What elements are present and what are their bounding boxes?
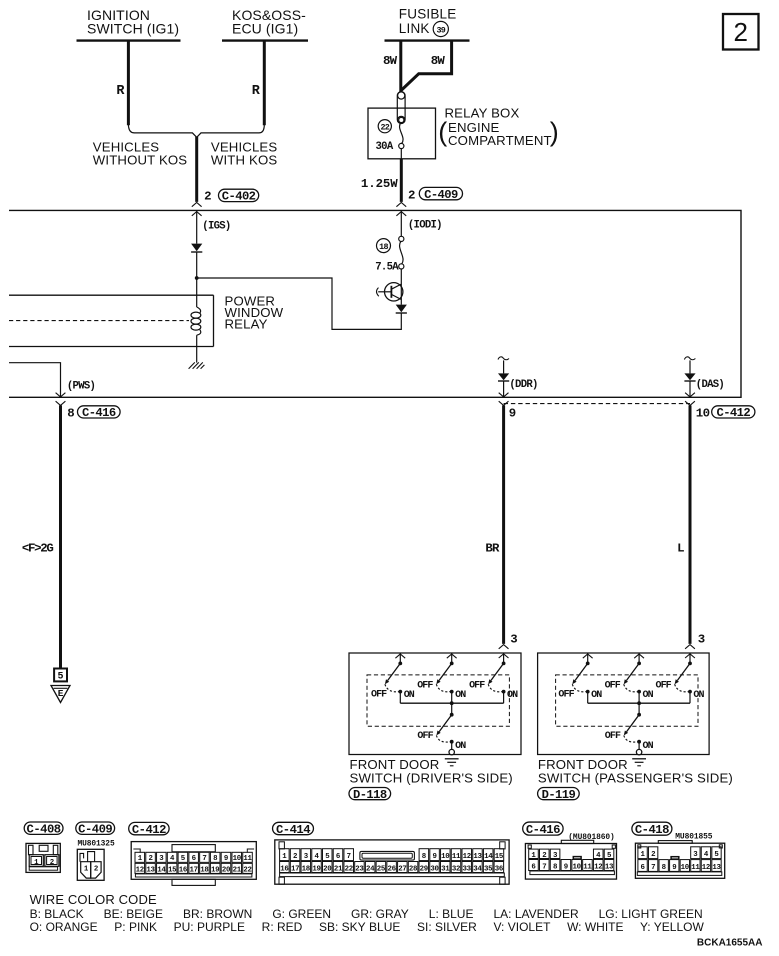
wire ON contact to bus main contact (689, 692, 691, 704)
switch stub main contact (689, 654, 691, 664)
ON contact window-lock contact (398, 690, 402, 694)
svg-text:5: 5 (57, 672, 63, 683)
svg-text:C-409: C-409 (424, 188, 458, 202)
wire 8W left drop (399, 41, 402, 92)
svg-text:19: 19 (211, 866, 219, 874)
switch stub window-lock contact (395, 653, 405, 663)
wire R from ignition switch (127, 41, 130, 126)
svg-text:16: 16 (179, 866, 188, 874)
wire branch to transistor (197, 278, 402, 329)
svg-text:OFF: OFF (655, 680, 671, 691)
svg-text:25: 25 (377, 866, 386, 874)
wire to connector C-402 (195, 137, 198, 202)
svg-text:23: 23 (355, 866, 364, 874)
svg-text:): ) (550, 117, 559, 147)
svg-text:14: 14 (157, 866, 166, 874)
svg-text:ON: ON (591, 690, 602, 701)
wire ON contact to bus center contact (638, 692, 640, 704)
relay box label RELAY BOX (ENGINE COMPARTMENT) (438, 105, 559, 148)
svg-text:7: 7 (202, 855, 206, 863)
svg-text:8W: 8W (383, 54, 398, 68)
ignition switch (IG1) header (77, 7, 181, 41)
switch blade center contact (436, 663, 451, 684)
connector C-416 bubble (pin 8) (78, 406, 121, 420)
svg-text:C-414: C-414 (276, 823, 310, 837)
svg-text:C-408: C-408 (27, 823, 61, 837)
svg-text:(IODI): (IODI) (408, 219, 442, 231)
connector D-118 bubble (349, 788, 391, 802)
svg-text:(PWS): (PWS) (67, 380, 95, 392)
page number box 2 (723, 14, 759, 50)
svg-text:7: 7 (347, 853, 351, 861)
connector C-416 drawing (525, 840, 616, 879)
connector C-409 bubble label (76, 822, 115, 837)
pivot node door contact (450, 713, 454, 717)
svg-text:RELAY: RELAY (225, 316, 268, 331)
switch stub window-lock contact (583, 653, 593, 663)
svg-text:<F>2G: <F>2G (22, 542, 54, 556)
svg-text:8: 8 (67, 407, 74, 421)
wire ON contact to bus window-lock contact (587, 692, 589, 704)
switch blade door contact (436, 715, 451, 736)
svg-text:32: 32 (452, 866, 460, 874)
entry crossing arrows (pin 3) (685, 645, 695, 658)
svg-text:C-412: C-412 (132, 823, 166, 837)
svg-text:9: 9 (509, 407, 516, 421)
pivot node center contact (450, 662, 454, 666)
svg-text:WITH KOS: WITH KOS (211, 153, 277, 168)
dashed pair link below ECU (504, 403, 690, 405)
svg-text:2: 2 (733, 17, 747, 47)
svg-text:9: 9 (672, 864, 676, 872)
switch blade center contact (624, 663, 639, 684)
ON contact door switch (637, 740, 641, 744)
svg-text:OFF: OFF (558, 690, 574, 701)
svg-text:9: 9 (564, 864, 568, 872)
svg-text:(DAS): (DAS) (696, 379, 724, 391)
dashed lock-group outline (556, 675, 698, 726)
svg-text:WIRE COLOR CODE: WIRE COLOR CODE (30, 892, 157, 907)
connector D-119 bubble (538, 788, 580, 802)
wire 8W right drop (401, 41, 452, 91)
svg-text:14: 14 (484, 853, 493, 861)
internal ground hatch (189, 362, 205, 368)
svg-text:36: 36 (495, 866, 504, 874)
ground terminal box 5 (54, 669, 67, 683)
ground wire 2G (59, 405, 62, 668)
svg-text:11: 11 (452, 853, 461, 861)
common bus wire (588, 702, 690, 704)
dashed throw arc window-lock contact (572, 684, 586, 692)
svg-text:17: 17 (190, 866, 198, 874)
wire (IODI) inside ECU (400, 210, 402, 236)
wire color code legend (30, 892, 705, 934)
common bus wire (400, 702, 503, 704)
ON contact main contact (502, 690, 506, 694)
svg-text:C-416: C-416 (526, 823, 560, 837)
node junction on IGS line (195, 276, 199, 280)
wire R from KOS&OSS-ECU (263, 41, 266, 126)
ON contact main contact (688, 690, 692, 694)
svg-text:18: 18 (200, 866, 209, 874)
ETACS-ECU box outline (9, 210, 741, 397)
ON contact door switch (450, 740, 454, 744)
switch blade main contact (488, 663, 503, 684)
svg-text:C-418: C-418 (635, 823, 669, 837)
svg-text:10: 10 (233, 855, 242, 863)
svg-text:9: 9 (433, 853, 437, 861)
chassis ground symbol (632, 759, 646, 766)
connector C-414 bubble label (273, 822, 314, 837)
diode on (DAS) line (684, 373, 695, 381)
svg-text:2: 2 (94, 866, 98, 874)
svg-text:13: 13 (146, 866, 155, 874)
svg-text:OFF: OFF (371, 690, 387, 701)
svg-text:OFF: OFF (605, 680, 621, 691)
svg-text:26: 26 (387, 866, 396, 874)
svg-text:ON: ON (455, 690, 466, 701)
svg-text:11: 11 (243, 855, 252, 863)
svg-text:OFF: OFF (469, 680, 485, 691)
svg-text:O: ORANGE P: PINK PU:: O: ORANGE P: PINK PU: PURPLE R: RED SB: … (30, 920, 705, 934)
svg-text:(IGS): (IGS) (202, 220, 230, 232)
svg-text:2: 2 (542, 852, 546, 860)
svg-text:C-412: C-412 (717, 406, 751, 420)
svg-text:2: 2 (204, 189, 211, 203)
svg-text:11: 11 (691, 864, 700, 872)
svg-text:SWITCH (DRIVER'S SIDE): SWITCH (DRIVER'S SIDE) (350, 770, 513, 785)
svg-text:1.25W: 1.25W (361, 177, 398, 191)
svg-text:C-416: C-416 (82, 406, 116, 420)
svg-text:19: 19 (312, 866, 320, 874)
fuse 22 element (399, 117, 404, 148)
svg-text:C-409: C-409 (78, 823, 112, 837)
wire ON contact to bus window-lock contact (399, 692, 401, 704)
svg-text:2: 2 (293, 853, 297, 861)
svg-text:15: 15 (168, 866, 177, 874)
wire (IGS) inside ECU (196, 210, 198, 243)
svg-text:2: 2 (50, 859, 54, 867)
continuation curl (DAS) (684, 357, 695, 360)
switch stub main contact (503, 654, 505, 664)
svg-text:ON: ON (455, 741, 466, 752)
svg-text:7: 7 (651, 864, 655, 872)
svg-text:22: 22 (380, 122, 389, 132)
fusible link element symbol (397, 92, 405, 124)
connector C-408 bubble label (24, 822, 63, 837)
fusible link supply bar (385, 39, 470, 41)
svg-text:ECU (IG1): ECU (IG1) (232, 21, 298, 37)
diode on IGS line (191, 244, 202, 252)
svg-text:39: 39 (436, 25, 445, 35)
svg-text:15: 15 (495, 853, 504, 861)
svg-text:WITHOUT KOS: WITHOUT KOS (93, 153, 188, 168)
pivot node main contact (688, 662, 692, 666)
svg-text:35: 35 (484, 866, 493, 874)
svg-text:2: 2 (408, 189, 415, 203)
svg-text:(: ( (438, 117, 447, 147)
wire coil to internal ground (196, 335, 198, 362)
wire L to passenger door switch (689, 405, 692, 644)
wire to ground terminal (451, 742, 453, 750)
svg-text:31: 31 (441, 866, 450, 874)
svg-text:L: L (677, 541, 684, 555)
wire bus to door switch (638, 703, 640, 715)
circled 18 (fuse number) (377, 239, 391, 253)
svg-text:17: 17 (291, 866, 299, 874)
svg-text:7.5A: 7.5A (375, 262, 399, 274)
svg-text:RELAY BOX: RELAY BOX (445, 105, 520, 120)
svg-text:12: 12 (702, 864, 710, 872)
switch blade window-lock contact (385, 663, 400, 684)
svg-text:12: 12 (463, 853, 471, 861)
svg-text:10: 10 (696, 407, 710, 421)
svg-text:13: 13 (473, 853, 482, 861)
svg-text:8W: 8W (431, 54, 446, 68)
wire (DDR) to diode (503, 360, 505, 373)
svg-text:3: 3 (510, 633, 517, 647)
wire (PWS) inside ECU (9, 363, 61, 398)
ON contact center contact (450, 690, 454, 694)
dashed throw arc main contact (675, 684, 689, 692)
svg-text:12: 12 (594, 864, 602, 872)
connector C-418 bubble label (632, 822, 672, 837)
svg-text:3: 3 (698, 633, 705, 647)
svg-text:OFF: OFF (417, 731, 433, 742)
svg-text:30A: 30A (376, 141, 394, 153)
dashed throw arc main contact (488, 684, 502, 692)
wire to ground terminal (638, 742, 640, 750)
svg-text:11: 11 (583, 864, 592, 872)
svg-text:D-118: D-118 (353, 788, 387, 802)
svg-text:R: R (116, 84, 125, 99)
switch stub center contact (634, 653, 644, 663)
connector C-402 bubble (219, 189, 259, 204)
wire BR to driver door switch (502, 405, 505, 644)
connector C-414 drawing (275, 840, 509, 884)
pivot node door contact (637, 713, 641, 717)
connector C-409 bubble (419, 187, 462, 202)
KOS&OSS-ECU (IG1) header (222, 7, 308, 41)
svg-text:7: 7 (542, 864, 546, 872)
svg-text:SWITCH (IG1): SWITCH (IG1) (87, 21, 179, 37)
dashed lock-group outline (367, 675, 509, 726)
svg-text:ON: ON (643, 741, 654, 752)
svg-text:ON: ON (404, 690, 415, 701)
label FRONT DOOR SWITCH (DRIVER'S SIDE) (350, 757, 513, 785)
connector C-409 crossing arrows (396, 203, 406, 216)
switch stub center contact (447, 653, 457, 663)
wire ON contact to bus main contact (503, 692, 505, 704)
label FRONT DOOR SWITCH (PASSENGER'S SIDE) (538, 757, 733, 785)
door switch box outline (538, 653, 710, 755)
wire from diode to relay coil (196, 252, 198, 307)
earth point E symbol (51, 686, 70, 703)
connector C-412 bubble (pin 10) (712, 406, 755, 420)
wire diode to ECU edge (DAS) (689, 381, 691, 397)
connector C-408 drawing (26, 843, 60, 872)
svg-text:20: 20 (222, 866, 231, 874)
dashed throw arc door contact (436, 735, 450, 742)
svg-text:2: 2 (148, 855, 152, 863)
switch blade window-lock contact (572, 663, 587, 684)
fusible link header with circled 39 (399, 6, 457, 36)
wire (DAS) to diode (689, 360, 691, 373)
connector C-416 bubble label (523, 822, 563, 837)
entry crossing arrows (pin 3) (499, 645, 509, 658)
svg-text:D-119: D-119 (542, 788, 576, 802)
svg-text:34: 34 (473, 866, 482, 874)
label POWER WINDOW RELAY (225, 293, 284, 331)
svg-text:MU801325: MU801325 (78, 839, 115, 848)
svg-text:B: BLACK BE: BEIGE B: B: BLACK BE: BEIGE BR: BROWN G: GREEN GR… (30, 907, 703, 921)
connector C-412 bubble label (129, 822, 169, 837)
svg-text:E: E (58, 688, 64, 699)
svg-text:COMPARTMENT: COMPARTMENT (448, 133, 552, 148)
transistor Q (IOD driver) (377, 283, 403, 301)
fuse 18 element 7.5A (399, 236, 404, 269)
bus junction node (450, 701, 454, 705)
svg-text:MU801855: MU801855 (675, 832, 712, 841)
switch blade door contact (624, 715, 639, 736)
svg-text:12: 12 (136, 866, 144, 874)
ground terminal circle (449, 749, 454, 754)
svg-text:18: 18 (379, 242, 388, 252)
wire from fuse 22 to box edge (400, 149, 402, 159)
svg-text:OFF: OFF (417, 680, 433, 691)
connector C-418 drawing (635, 841, 724, 879)
svg-text:ON: ON (643, 690, 654, 701)
connector crossing arrows (DDR) (499, 393, 509, 406)
connector C-416 crossing arrows (56, 393, 66, 406)
wire fuse 18 to transistor (400, 269, 402, 305)
svg-text:10: 10 (681, 864, 690, 872)
svg-text:30: 30 (430, 866, 439, 874)
circled 22 (fuse number) (378, 120, 391, 133)
label VEHICLES WITHOUT KOS (93, 139, 188, 167)
connector C-402 crossing arrows (192, 203, 202, 216)
wire 1.25W to connector C-409 (400, 159, 403, 202)
chassis ground symbol (445, 759, 459, 766)
diode below transistor (396, 305, 407, 313)
svg-text:21: 21 (233, 866, 242, 874)
svg-text:OFF: OFF (605, 731, 621, 742)
dashed relay contact link (9, 320, 189, 322)
pivot node main contact (502, 662, 506, 666)
bus junction node (637, 701, 641, 705)
ON contact center contact (637, 690, 641, 694)
svg-text:13: 13 (712, 864, 721, 872)
svg-text:18: 18 (302, 866, 311, 874)
dashed throw arc center contact (436, 684, 450, 692)
diode on (DDR) line (498, 373, 509, 381)
label VEHICLES WITH KOS (211, 139, 277, 167)
continuation curl (DDR) (498, 357, 509, 360)
svg-text:21: 21 (334, 866, 343, 874)
wire ON contact to bus center contact (451, 692, 453, 704)
wire bus to door switch (451, 703, 453, 715)
ground terminal circle (636, 749, 641, 754)
pivot node window-lock contact (398, 662, 402, 666)
svg-text:22: 22 (345, 866, 353, 874)
svg-text:16: 16 (280, 866, 289, 874)
door switch box outline (349, 653, 521, 755)
svg-text:ON: ON (693, 690, 704, 701)
ON contact window-lock contact (586, 690, 590, 694)
relay coil (191, 307, 201, 335)
svg-text:R: R (252, 84, 261, 99)
svg-text:22: 22 (243, 866, 251, 874)
dashed throw arc window-lock contact (385, 684, 399, 692)
svg-text:20: 20 (323, 866, 332, 874)
svg-text:10: 10 (573, 864, 582, 872)
connector C-409 drawing (77, 849, 104, 880)
brace joining the two R wires (128, 125, 264, 138)
switch blade main contact (675, 663, 690, 684)
svg-text:BR: BR (485, 541, 500, 555)
relay box outline (engine compartment) (368, 108, 436, 159)
svg-text:BCKA1655AA: BCKA1655AA (697, 937, 763, 948)
svg-text:10: 10 (441, 853, 450, 861)
pivot node window-lock contact (586, 662, 590, 666)
svg-text:FUSIBLE: FUSIBLE (399, 6, 457, 21)
connector crossing arrows (DAS) (685, 393, 695, 406)
svg-text:28: 28 (409, 866, 418, 874)
svg-text:24: 24 (366, 866, 375, 874)
dashed throw arc center contact (624, 684, 638, 692)
svg-text:C-402: C-402 (222, 190, 256, 204)
svg-text:ON: ON (507, 690, 518, 701)
svg-text:LINK: LINK (399, 21, 430, 36)
svg-text:27: 27 (398, 866, 406, 874)
wire diode to ECU edge (DDR) (503, 381, 505, 397)
svg-text:(DDR): (DDR) (509, 379, 537, 391)
svg-text:33: 33 (463, 866, 472, 874)
svg-text:2: 2 (651, 851, 655, 859)
pivot node center contact (637, 662, 641, 666)
svg-text:9: 9 (224, 855, 228, 863)
power window relay box outline (9, 295, 214, 346)
connector C-412 drawing (131, 842, 256, 886)
svg-text:SWITCH (PASSENGER'S SIDE): SWITCH (PASSENGER'S SIDE) (538, 770, 733, 785)
svg-text:13: 13 (605, 864, 614, 872)
svg-text:29: 29 (420, 866, 428, 874)
dashed throw arc door contact (624, 735, 638, 742)
